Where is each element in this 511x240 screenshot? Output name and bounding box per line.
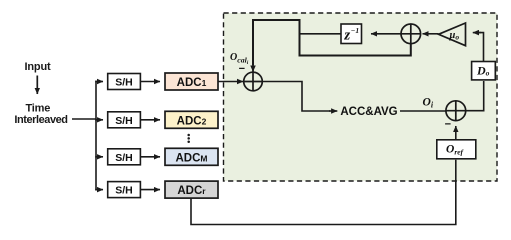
wire bus to S/H 2: [95, 119, 103, 121]
svg-text:−: −: [239, 63, 245, 75]
ADCr block: [165, 181, 218, 198]
svg-text:Input: Input: [25, 61, 51, 73]
summing node O_cal (subtractor): [244, 72, 263, 91]
S/H block 2: [108, 112, 141, 128]
arrow Input to Time Interleaved: [36, 76, 38, 95]
wire input bus vertical: [95, 81, 97, 191]
wire S/H1 to ADC1: [140, 81, 160, 83]
wire S/H3 to ADCM: [140, 156, 160, 158]
svg-text:z: z: [343, 27, 350, 43]
calibration block background (dashed green box): [224, 13, 498, 181]
wire bus to S/H 3: [95, 156, 103, 158]
wire bus to S/H 1: [95, 81, 103, 83]
S/H block 3: [108, 149, 141, 165]
svg-text:ACC&AVG: ACC&AVG: [340, 106, 397, 118]
svg-text:S/H: S/H: [115, 185, 133, 197]
svg-text:S/H: S/H: [115, 152, 133, 164]
ADC1 block: [165, 73, 218, 90]
svg-text:ADCM: ADCM: [175, 152, 207, 164]
wire ADCr to O_ref: [191, 160, 456, 225]
gain amplifier mu_o (triangle): [439, 23, 466, 46]
svg-text:ADC2: ADC2: [177, 115, 207, 127]
summing node accumulator adder: [401, 24, 421, 44]
svg-text:−: −: [445, 118, 451, 130]
register D_o block: [472, 62, 496, 80]
wire output subtractor to D_o: [466, 81, 484, 111]
svg-text:S/H: S/H: [115, 77, 133, 89]
wire ADC1 to offset subtractor: [218, 81, 243, 83]
wire accumulator loop (z-1 out to adder bottom): [300, 33, 411, 56]
wire ACC&AVG to output subtractor: [400, 110, 446, 112]
wire O_ref to output subtractor: [455, 126, 457, 140]
svg-text:−1: −1: [351, 26, 359, 35]
delay block z^-1: [341, 24, 362, 44]
wire feedback from z-1 down to subtractor: [253, 20, 300, 65]
wire z-1 output: [299, 33, 342, 35]
wire bus to S/H 4: [95, 189, 103, 191]
ADC2 block: [165, 111, 218, 128]
ADCM block: [165, 148, 218, 165]
wire adder to z-1: [371, 33, 402, 35]
wire S/H4 to ADCr: [140, 189, 160, 191]
wire mu_o to adder: [423, 33, 439, 35]
svg-text:Interleaved: Interleaved: [14, 114, 67, 126]
wire S/H2 to ADC2: [140, 119, 160, 121]
S/H block 1: [108, 74, 141, 90]
wire D_o to mu_o: [479, 33, 484, 62]
wire input to bus: [72, 118, 96, 120]
S/H block 4: [108, 182, 141, 198]
svg-text:Time: Time: [25, 103, 50, 115]
svg-text:ADCr: ADCr: [177, 185, 206, 197]
reference block O_ref: [437, 140, 476, 159]
wire subtractor output to ACC&AVG: [262, 82, 330, 112]
summing node output subtractor: [446, 101, 466, 121]
vertical ellipsis between ADC2 and ADCM: [187, 134, 190, 143]
svg-text:S/H: S/H: [115, 115, 133, 127]
svg-text:ADC1: ADC1: [177, 77, 207, 89]
